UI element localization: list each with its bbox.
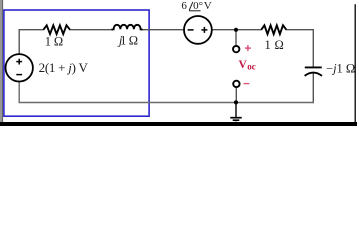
svg-text:0°: 0°: [193, 0, 203, 12]
svg-text:oc: oc: [247, 62, 256, 72]
svg-text:V: V: [239, 59, 248, 71]
svg-text:Ω: Ω: [54, 35, 63, 49]
svg-text:V: V: [204, 0, 212, 12]
svg-text:1: 1: [120, 34, 126, 48]
svg-text:6: 6: [181, 0, 187, 12]
svg-text:1: 1: [45, 35, 51, 49]
svg-text:Ω: Ω: [275, 38, 284, 52]
svg-text:Ω: Ω: [129, 34, 138, 48]
svg-text:−j1 Ω: −j1 Ω: [326, 62, 355, 76]
svg-text:1: 1: [265, 38, 271, 52]
svg-text:2(1 + j) V: 2(1 + j) V: [39, 60, 89, 75]
